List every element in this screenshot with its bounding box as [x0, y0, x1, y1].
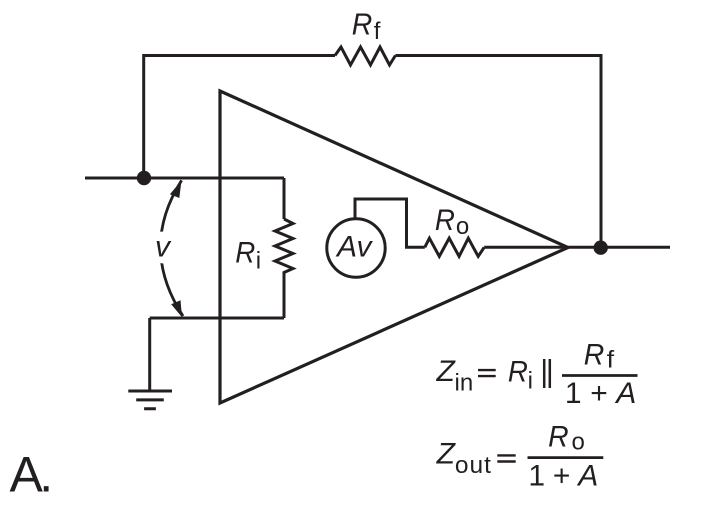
- svg-text:o: o: [572, 429, 585, 456]
- svg-text:.: .: [39, 447, 53, 503]
- arrow v measurement arc: [160, 180, 183, 317]
- gap for v label: [148, 232, 180, 264]
- svg-text:R: R: [235, 236, 255, 269]
- svg-text:f: f: [607, 347, 615, 374]
- resistor Ri: [275, 219, 293, 276]
- wire bottom horizontal: [150, 317, 284, 320]
- wire feedback top right: [395, 56, 601, 249]
- wire feedback left vertical: [144, 56, 335, 179]
- svg-text:R: R: [352, 7, 373, 42]
- ground: [128, 391, 172, 409]
- svg-text:out: out: [455, 452, 492, 479]
- label Ro: [435, 204, 469, 240]
- svg-text:in: in: [455, 369, 474, 396]
- equation Zin: [436, 338, 638, 410]
- wire input horizontal: [85, 177, 284, 180]
- resistor Ro: [425, 238, 484, 256]
- svg-text:A: A: [614, 377, 636, 410]
- wire ground stem: [148, 318, 151, 391]
- svg-text:o: o: [456, 213, 469, 240]
- wire Ri branch top: [283, 178, 286, 219]
- svg-text:1: 1: [565, 377, 582, 410]
- wire Av to Ro: [355, 199, 425, 247]
- svg-text:+: +: [590, 377, 608, 410]
- resistor Rf: [335, 47, 395, 65]
- label Ri: [235, 236, 261, 274]
- op-amp triangle: [220, 91, 568, 403]
- svg-text:1: 1: [528, 460, 545, 493]
- svg-text:v: v: [155, 230, 172, 263]
- svg-text:R: R: [508, 355, 528, 388]
- svg-text:+: +: [553, 460, 571, 493]
- svg-text:R: R: [548, 420, 569, 453]
- equation Zout: [436, 420, 604, 492]
- svg-text:R: R: [584, 338, 605, 371]
- svg-text:A: A: [576, 460, 598, 493]
- svg-text:R: R: [435, 204, 455, 237]
- node output junction: [594, 241, 608, 255]
- dependent source Av: [327, 219, 385, 277]
- wire Ri branch bottom: [283, 276, 286, 318]
- node input junction: [137, 171, 151, 185]
- svg-text:i: i: [256, 247, 261, 274]
- svg-text:f: f: [374, 18, 381, 45]
- svg-text:Z: Z: [436, 355, 457, 388]
- label Rf: [352, 7, 381, 46]
- svg-text:Z: Z: [436, 437, 457, 470]
- svg-text:i: i: [528, 368, 533, 395]
- svg-text:Av: Av: [335, 231, 373, 264]
- wire output: [484, 246, 670, 249]
